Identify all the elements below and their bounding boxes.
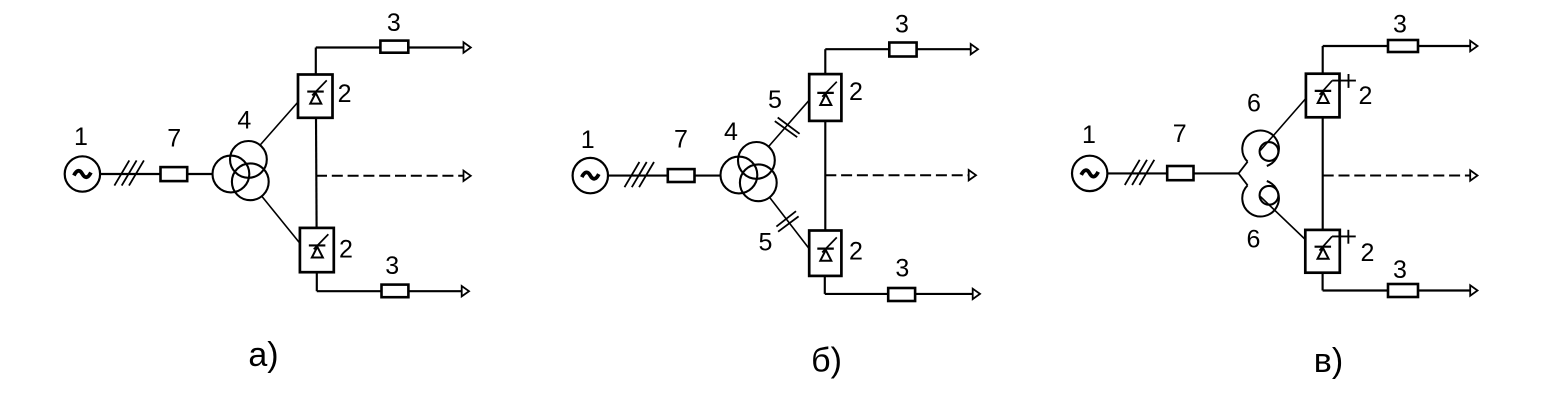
svg-text:3: 3 (1393, 256, 1407, 284)
svg-text:7: 7 (674, 125, 688, 153)
svg-text:4: 4 (237, 107, 251, 135)
svg-text:2: 2 (1361, 239, 1375, 267)
svg-text:4: 4 (724, 118, 738, 146)
svg-text:5: 5 (768, 86, 782, 114)
svg-text:7: 7 (1173, 120, 1187, 148)
svg-text:а): а) (248, 336, 278, 374)
svg-text:1: 1 (581, 126, 595, 154)
svg-text:3: 3 (385, 252, 399, 280)
svg-text:2: 2 (338, 80, 352, 108)
svg-text:6: 6 (1247, 90, 1261, 118)
svg-text:3: 3 (895, 255, 909, 283)
svg-text:5: 5 (759, 229, 773, 257)
svg-text:2: 2 (1359, 82, 1373, 110)
svg-text:3: 3 (387, 9, 401, 37)
svg-text:2: 2 (849, 78, 863, 106)
svg-text:3: 3 (1393, 11, 1407, 39)
svg-text:1: 1 (1082, 121, 1096, 149)
svg-text:б): б) (811, 342, 842, 380)
svg-text:2: 2 (339, 235, 353, 263)
svg-text:1: 1 (74, 123, 88, 151)
svg-text:7: 7 (167, 125, 181, 153)
svg-text:2: 2 (849, 238, 863, 266)
svg-text:6: 6 (1247, 226, 1261, 254)
svg-text:в): в) (1314, 342, 1343, 380)
svg-text:3: 3 (895, 10, 909, 38)
